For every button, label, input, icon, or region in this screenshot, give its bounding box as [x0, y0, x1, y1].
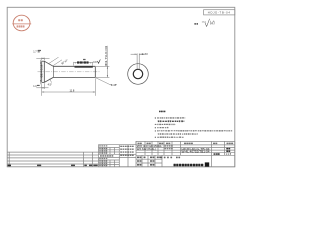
- shank dia dim extension lines: [96, 65, 109, 67]
- note line 2: [158, 120, 159, 122]
- title block inner grid: [99, 141, 235, 166]
- knurl length dim line: [74, 62, 93, 64]
- stage mark mini header texts: [161, 157, 163, 159]
- svg-text:W-4L 40752/TB1-04: W-4L 40752/TB1-04: [182, 150, 211, 154]
- sign row texts: [137, 157, 139, 159]
- countersunk head outline: [42, 61, 96, 82]
- note line 4: [155, 127, 156, 128]
- note line 6: [158, 133, 160, 134]
- chamfer leader line: [96, 78, 113, 85]
- svg-text:Φ8.4-0.15: Φ8.4-0.15: [40, 64, 43, 78]
- svg-text:90°±1°: 90°±1°: [61, 59, 69, 66]
- dimension arrowheads: [40, 58, 108, 93]
- sheet qty texts: [226, 148, 228, 150]
- scale row: gong X zhang di X zhang: [214, 153, 216, 155]
- company logo black square: [205, 162, 209, 166]
- title block header texts: [138, 143, 140, 145]
- head cone upper edge: [44, 61, 53, 66]
- note line 7: [155, 137, 156, 138]
- stamp chord line: [12, 23, 31, 25]
- head thickness dim extension lines: [41, 58, 43, 61]
- drawing sheet border frame: [7, 7, 235, 167]
- company name stamp text: [174, 164, 176, 166]
- middle zone label texts: [120, 146, 122, 147]
- red approval stamp circle: [12, 15, 31, 31]
- end view inner circle (shank, thick): [133, 69, 142, 78]
- shank dia dim line extension up: [106, 46, 108, 67]
- svg-text:HDJD-TB-04: HDJD-TB-04: [208, 11, 231, 15]
- note line 3: [155, 124, 157, 125]
- note line 1: [155, 117, 156, 118]
- left zone tiny row texts: [99, 145, 101, 146]
- knurled band on shank: [75, 66, 93, 68]
- shank dia dim line: [106, 66, 108, 77]
- notes heading ji-shu-yao-qiu: [159, 111, 160, 113]
- note: qi-yu (rest of surfaces) characters: [194, 23, 196, 25]
- roughness check symbol: [205, 19, 210, 27]
- svg-text:0.8: 0.8: [93, 62, 97, 64]
- overall length dim line: [42, 91, 96, 93]
- svg-text:2×45°: 2×45°: [111, 84, 117, 87]
- draft angle leader: [50, 79, 52, 83]
- parenthesised small check symbol: [209, 21, 211, 25]
- revision table rows: [7, 152, 98, 167]
- 90 degree angle leader: [48, 57, 59, 64]
- head cone lower edge: [44, 77, 53, 82]
- svg-text:1.7: 1.7: [33, 50, 37, 53]
- note line 5: [155, 130, 156, 131]
- svg-text:12.5: 12.5: [202, 21, 207, 23]
- stamp upper text: [18, 19, 20, 21]
- drawing number box top-right: [204, 10, 235, 15]
- shank outline: [53, 65, 95, 67]
- dim text knurl spec (dark cluster on dim line): [77, 61, 79, 63]
- head dia dim line: [40, 60, 42, 85]
- svg-text:4.5°: 4.5°: [48, 84, 52, 87]
- knurl length dim extension lines: [73, 62, 75, 66]
- zone A middle band label: [100, 155, 102, 157]
- svg-text:WX 612 (HcAL): WX 612 (HcAL): [137, 148, 156, 151]
- stamp lower text: [17, 25, 19, 27]
- end view dim extension lines: [131, 53, 146, 69]
- revision table verticals: [8, 152, 10, 167]
- head rim dim line: [36, 87, 48, 89]
- head thickness dim line: [36, 57, 49, 59]
- svg-text:0.73: 0.73: [142, 52, 148, 56]
- svg-text:1:1.5: 1:1.5: [226, 153, 232, 156]
- end view dim arrows: [135, 54, 142, 55]
- title block outline: [99, 141, 235, 166]
- overall length dim extension lines: [41, 83, 43, 96]
- end view outer circle (head dia): [128, 64, 149, 85]
- svg-text:11.8: 11.8: [70, 88, 75, 92]
- svg-text:Φ4.73-0.03: Φ4.73-0.03: [104, 45, 108, 66]
- part centerline: [38, 71, 100, 73]
- revision table header texts: [8, 165, 11, 167]
